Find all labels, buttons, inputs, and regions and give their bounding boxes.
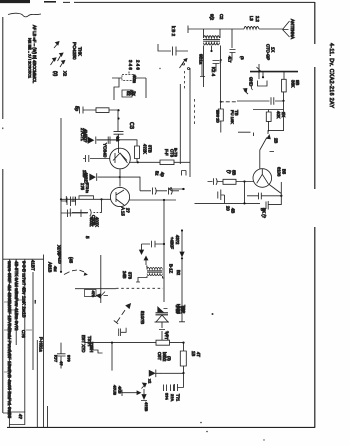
svg-text:10K: 10K — [180, 306, 185, 314]
wire w17 — [70, 199, 101, 216]
wire w28 — [143, 389, 145, 394]
switch S2 dashed link — [64, 270, 84, 275]
junction n16 — [243, 180, 245, 182]
wire v182a — [181, 230, 183, 253]
wire v164 — [163, 200, 165, 302]
T1 left lead down — [203, 46, 205, 88]
junction n23 — [182, 372, 184, 374]
capacitor C14 — [86, 174, 88, 182]
svg-text:F-F: F-F — [164, 149, 169, 156]
speck 3 — [159, 68, 160, 69]
diode D9 ground — [140, 244, 144, 254]
transistor Q2 — [110, 187, 129, 206]
wire w9 — [259, 28, 283, 30]
svg-text:2B: 2B — [274, 138, 279, 143]
svg-text:4T: 4T — [196, 352, 201, 357]
curve mark — [251, 85, 252, 91]
svg-text:(45: (45 — [69, 257, 74, 264]
switch S1a contacts — [183, 63, 185, 65]
junction n22 — [182, 342, 184, 344]
svg-text:B: B — [260, 208, 265, 211]
svg-text:C2: C2 — [219, 14, 224, 20]
transformer T2 secondary — [147, 274, 163, 276]
junction n18 — [181, 229, 183, 231]
junction n24 — [220, 59, 222, 61]
svg-text:3 4 6: 3 4 6 — [128, 60, 133, 70]
svg-text:EST X?D: EST X?D — [81, 335, 86, 352]
wire w2 — [112, 72, 146, 79]
svg-text:36K: 36K — [291, 80, 296, 88]
svg-text:THK: THK — [78, 47, 83, 56]
svg-text:(2): (2) — [53, 71, 58, 77]
transistor Q1 internals — [113, 148, 128, 163]
svg-text:x2: x2 — [148, 379, 153, 384]
T1 center tap — [211, 46, 213, 52]
bracket U1 — [258, 81, 268, 87]
wire w3 — [114, 78, 119, 100]
svg-text:13B: 13B — [82, 170, 87, 178]
speck 4 — [206, 431, 208, 433]
wire w14 — [253, 109, 284, 111]
resistor R10 — [180, 343, 186, 373]
junction n17 — [243, 202, 245, 204]
svg-text:8B: 8B — [232, 170, 237, 175]
junction n20 — [60, 271, 62, 273]
svg-text:4?: 4? — [18, 414, 23, 419]
wire w12 — [237, 92, 284, 101]
border bottom — [7, 426, 315, 428]
junction n8 — [262, 76, 264, 78]
svg-text:9B1a: 9B1a — [199, 54, 204, 65]
resistor R11 — [218, 109, 223, 133]
junction n14 — [163, 243, 165, 245]
svg-text:4?2K: 4?2K — [143, 144, 148, 154]
svg-text:C?8: C?8 — [21, 330, 26, 338]
svg-text:5p: 5p — [75, 106, 80, 112]
svg-text:wave 050F 4M 4B05M05F 1BVBdBwM: wave 050F 4M 4B05M05F 1BVBdBwM PwvdvBF 1… — [7, 261, 12, 419]
svg-text:C30B: C30B — [91, 215, 96, 226]
svg-text:L3: L3 — [249, 16, 254, 21]
step wire w25 — [93, 346, 103, 353]
svg-text:45UB: 45UB — [113, 385, 118, 395]
junction n7 — [258, 70, 260, 72]
junction n12b — [60, 198, 62, 200]
svg-text:9?9: 9?9 — [67, 355, 72, 362]
svg-text:1-13: 1-13 — [175, 305, 180, 314]
diode D5 — [88, 137, 96, 144]
capacitor C9 — [230, 29, 236, 61]
svg-text:4B-5TK 9AM wBmFvw 41Bm 9v?2: 4B-5TK 9AM wBmFvw 41Bm 9v?2 — [14, 261, 19, 331]
svg-text:k B 2: k B 2 — [171, 26, 176, 37]
svg-text:A 15: A 15 — [121, 207, 126, 216]
junction n5 — [119, 176, 121, 178]
svg-text:2.2: 2.2 — [255, 16, 260, 22]
svg-text:8z: 8z — [126, 91, 131, 96]
switch linkage dashes — [184, 71, 186, 90]
connection arrow A1 — [149, 370, 160, 378]
capacitor C24 — [66, 196, 75, 203]
svg-text:40K: 40K — [276, 111, 281, 119]
svg-text:PO4250: PO4250 — [71, 42, 77, 60]
capacitor C22 — [164, 385, 174, 392]
handwritten squiggle — [8, 13, 41, 17]
svg-text:3TB: 3TB — [148, 145, 153, 153]
wire w16 — [266, 196, 281, 210]
svg-text:5z: 5z — [155, 171, 160, 175]
speaker triangle — [156, 315, 168, 322]
capacitor C6 — [80, 107, 97, 114]
svg-text:(3: (3 — [240, 56, 245, 60]
bracket small — [182, 171, 187, 176]
wire long v1 — [179, 84, 181, 164]
junction n3 — [117, 139, 119, 141]
junction n2 — [117, 117, 119, 119]
fet arrow — [96, 292, 108, 298]
speaker bars — [156, 313, 169, 315]
wire v47 — [47, 406, 49, 427]
svg-text:1X: 1X — [271, 47, 276, 52]
speaker base — [155, 321, 170, 323]
svg-text:9B: 9B — [295, 80, 300, 85]
svg-text:YO340: YO340 — [103, 143, 108, 158]
capacitor C20 ground — [175, 381, 184, 392]
speck 5 — [263, 439, 264, 440]
table box bottom — [3, 412, 25, 425]
polarity diode D3 — [51, 58, 57, 65]
transistor Q2 internals — [116, 177, 124, 206]
svg-text:4?b: 4?b — [91, 291, 96, 298]
svg-text:43?2: 43?2 — [175, 235, 180, 245]
wire w19 — [169, 187, 185, 191]
border right — [314, 2, 316, 427]
svg-text:40m: 40m — [132, 75, 137, 84]
border top dash — [44, 1, 56, 3]
capacitor C19 — [57, 354, 66, 356]
svg-text:4B: 4B — [231, 208, 236, 213]
svg-text:4M: 4M — [53, 266, 58, 272]
table inner dashes — [4, 300, 32, 372]
svg-text:2 4 6: 2 4 6 — [136, 60, 141, 70]
svg-text:X2: X2 — [63, 71, 68, 77]
speaker cone — [158, 307, 168, 312]
wire w18 — [139, 177, 141, 191]
resistor R7 — [266, 110, 271, 132]
junction n10 — [280, 195, 282, 197]
svg-text:GHD: GHD — [249, 77, 254, 86]
svg-text:V?T: V?T — [164, 332, 169, 340]
svg-text:373: 373 — [128, 272, 133, 280]
antenna symbol — [283, 21, 290, 37]
main bottom wire — [85, 342, 184, 344]
junction n25 — [220, 101, 222, 103]
wire v99 — [100, 255, 102, 303]
long wire w20 — [195, 202, 261, 204]
wire w21 — [245, 182, 255, 204]
svg-text:3?4: 3?4 — [165, 393, 170, 400]
wire w15 — [260, 138, 267, 169]
svg-text:(?: (? — [227, 170, 232, 174]
svg-text:K?7: K?7 — [54, 355, 59, 363]
svg-text:2x: 2x — [132, 91, 137, 96]
wire w8 — [119, 169, 121, 178]
junction n1 — [117, 109, 119, 111]
svg-text:20: 20 — [226, 206, 231, 211]
T1 top leads — [204, 29, 221, 38]
switch linkage dashes 2 — [194, 99, 196, 126]
capacitor C13 — [61, 210, 88, 218]
switch S2 arrow — [84, 272, 88, 276]
junction n12 — [100, 198, 102, 200]
resistor R8 — [217, 179, 245, 184]
svg-text:5: 5 — [85, 236, 90, 239]
capacitor C10 — [271, 97, 274, 104]
coupling caps C15 — [140, 188, 179, 195]
svg-text:ANTENNA: ANTENNA — [290, 19, 295, 39]
capacitor C3 plates — [114, 132, 124, 148]
junction n19 — [181, 257, 183, 259]
svg-text:TB: TB — [234, 110, 239, 116]
junction n15 — [182, 188, 184, 190]
svg-text:4LT: 4LT — [228, 56, 233, 63]
svg-text:ln: ln — [85, 190, 89, 193]
wire antenna bus — [188, 28, 244, 30]
wire y132 — [238, 132, 254, 136]
svg-text:(2): (2) — [167, 356, 172, 362]
capacitor C23 — [119, 328, 126, 336]
polarity diode D1 — [54, 42, 59, 49]
wire w26 — [160, 373, 183, 381]
resistor R9 — [156, 340, 170, 345]
transistor Q3 — [253, 169, 272, 188]
svg-text:24B: 24B — [122, 271, 127, 279]
svg-text:K2 4: K2 4 — [211, 67, 216, 77]
Q3 emitter wire — [269, 182, 282, 196]
wire w10 — [200, 55, 205, 77]
svg-text:+480F: +480F — [170, 237, 175, 249]
wire v61b — [60, 343, 62, 369]
transformer T2 primary — [147, 267, 163, 269]
svg-text:NE EE .. :U I 2C3C5C1: NE EE .. :U I 2C3C5C1 — [28, 38, 33, 78]
dashed box 40m — [122, 75, 135, 81]
svg-text:B-1Z: B-1Z — [169, 264, 174, 274]
junction n4 — [137, 161, 139, 163]
transistor Q3 internals — [257, 169, 269, 184]
wire v37 — [36, 340, 38, 427]
transformer T1 primary — [204, 36, 220, 38]
capacitor C5 — [173, 47, 177, 56]
svg-text:O5T: O5T — [157, 352, 162, 361]
diode D7 — [244, 89, 249, 95]
diode D12 — [141, 395, 147, 401]
polarity diode D4 — [60, 60, 65, 67]
transformer T1 core — [203, 40, 220, 42]
emitter wire Q2 — [130, 199, 177, 201]
wire w1 — [158, 44, 188, 51]
wire w6 — [97, 139, 138, 141]
resistor R4 — [135, 140, 140, 163]
diode D8 — [266, 134, 271, 139]
polarity diode D2 — [58, 53, 64, 61]
stub w11 — [262, 72, 264, 77]
diode D10 ground — [180, 252, 184, 257]
trimmer — [257, 64, 262, 79]
svg-text:B5: B5 — [282, 169, 287, 175]
wire long v2 — [189, 68, 191, 177]
transformer T2 arrow — [144, 256, 148, 265]
switch S3 lever — [114, 304, 131, 324]
wire y101 dashed — [221, 101, 236, 103]
svg-text:CTO-GP: CTO-GP — [266, 44, 271, 60]
wire v112 — [111, 343, 113, 371]
svg-text:A31B: A31B — [48, 262, 53, 272]
bus wire B+ — [250, 71, 298, 73]
svg-text:6106: 6106 — [277, 167, 282, 177]
capacitor C16 — [142, 241, 165, 248]
emitter wire Q1 — [130, 161, 161, 163]
wire w24 — [159, 322, 165, 340]
tick 2B — [270, 151, 275, 153]
wire w13 — [268, 101, 284, 134]
wire v182b — [179, 258, 185, 322]
capacitor C18 — [218, 190, 225, 204]
T1 right lead down — [220, 46, 222, 110]
svg-text:C3: C3 — [128, 122, 134, 129]
svg-text:1B: 1B — [191, 351, 196, 356]
svg-text:E93 20: E93 20 — [216, 110, 221, 123]
svg-text:P-HS1a: P-HS1a — [39, 337, 44, 352]
capacitor C12 — [61, 197, 76, 207]
diode D6 — [90, 173, 97, 181]
svg-text:1?5: 1?5 — [80, 183, 85, 191]
svg-text:9(2: 9(2 — [210, 14, 215, 21]
capacitor C17 — [208, 178, 218, 185]
svg-text:b5b2: b5b2 — [162, 352, 167, 362]
svg-text:51G?B: 51G?B — [140, 311, 145, 324]
svg-text:X?4Z0: X?4Z0 — [58, 252, 63, 265]
border top line — [63, 1, 315, 3]
svg-text:...: ... — [34, 300, 39, 304]
T1 left bar — [187, 26, 189, 34]
resistor R3 — [96, 108, 109, 113]
base wire Q2 — [61, 198, 111, 200]
transformer T2 core — [147, 271, 163, 272]
capacitor C7 — [97, 137, 119, 144]
svg-text:T3?H: T3?H — [87, 336, 92, 346]
wire w5 — [109, 110, 118, 131]
svg-text:2X: 2X — [281, 112, 286, 117]
wire w29 — [122, 390, 141, 397]
coil L3 — [244, 27, 259, 30]
svg-text:4p: 4p — [160, 172, 165, 177]
svg-text:4?: 4? — [59, 361, 64, 366]
resistor R5 — [160, 160, 190, 165]
border left — [2, 17, 4, 413]
junction n13 — [163, 199, 165, 201]
svg-text:CT3: CT3 — [170, 149, 175, 158]
svg-text:2?A: 2?A — [170, 394, 175, 401]
resistor R6 — [282, 72, 287, 92]
junction n21 — [111, 342, 113, 344]
border top bar — [0, 0, 30, 3]
svg-text:9-3-B m?w? 4Bv 1mK 2w1B: 9-3-B m?w? 4Bv 1mK 2w1B — [22, 261, 27, 318]
base wire Q1 — [83, 155, 110, 162]
svg-text:B2: B2 — [176, 270, 181, 276]
resistor R12 bump — [79, 196, 94, 200]
svg-text:4-11. Dv. CXA2-216 2AY: 4-11. Dv. CXA2-216 2AY — [328, 43, 334, 108]
wire w7 — [98, 176, 141, 178]
capacitor C8 — [213, 61, 222, 72]
transformer T1 secondary — [204, 43, 220, 45]
switch S1a lever — [180, 59, 188, 69]
wire w23 — [75, 288, 116, 290]
junction n6 — [210, 50, 212, 52]
wire w4 — [145, 78, 147, 98]
svg-text:2?C?1: 2?C?1 — [80, 128, 85, 141]
box K1 — [85, 290, 97, 297]
diode D11 — [142, 383, 147, 389]
capacitor C11 — [247, 193, 281, 200]
table outer — [3, 255, 44, 428]
speck 2 — [200, 422, 202, 424]
dashed linkage long — [116, 287, 163, 289]
wire v61 — [60, 118, 62, 272]
T2 leads — [136, 266, 164, 282]
svg-text:4?2B: 4?2B — [144, 402, 149, 412]
speck 1 — [212, 313, 214, 315]
svg-text:2?: 2? — [126, 208, 131, 213]
box X32 — [122, 90, 132, 97]
svg-text:T?1: T?1 — [176, 394, 181, 402]
svg-text:41BT: 41BT — [31, 260, 36, 271]
junction n9 — [282, 100, 284, 102]
transistor Q1 — [110, 148, 131, 169]
